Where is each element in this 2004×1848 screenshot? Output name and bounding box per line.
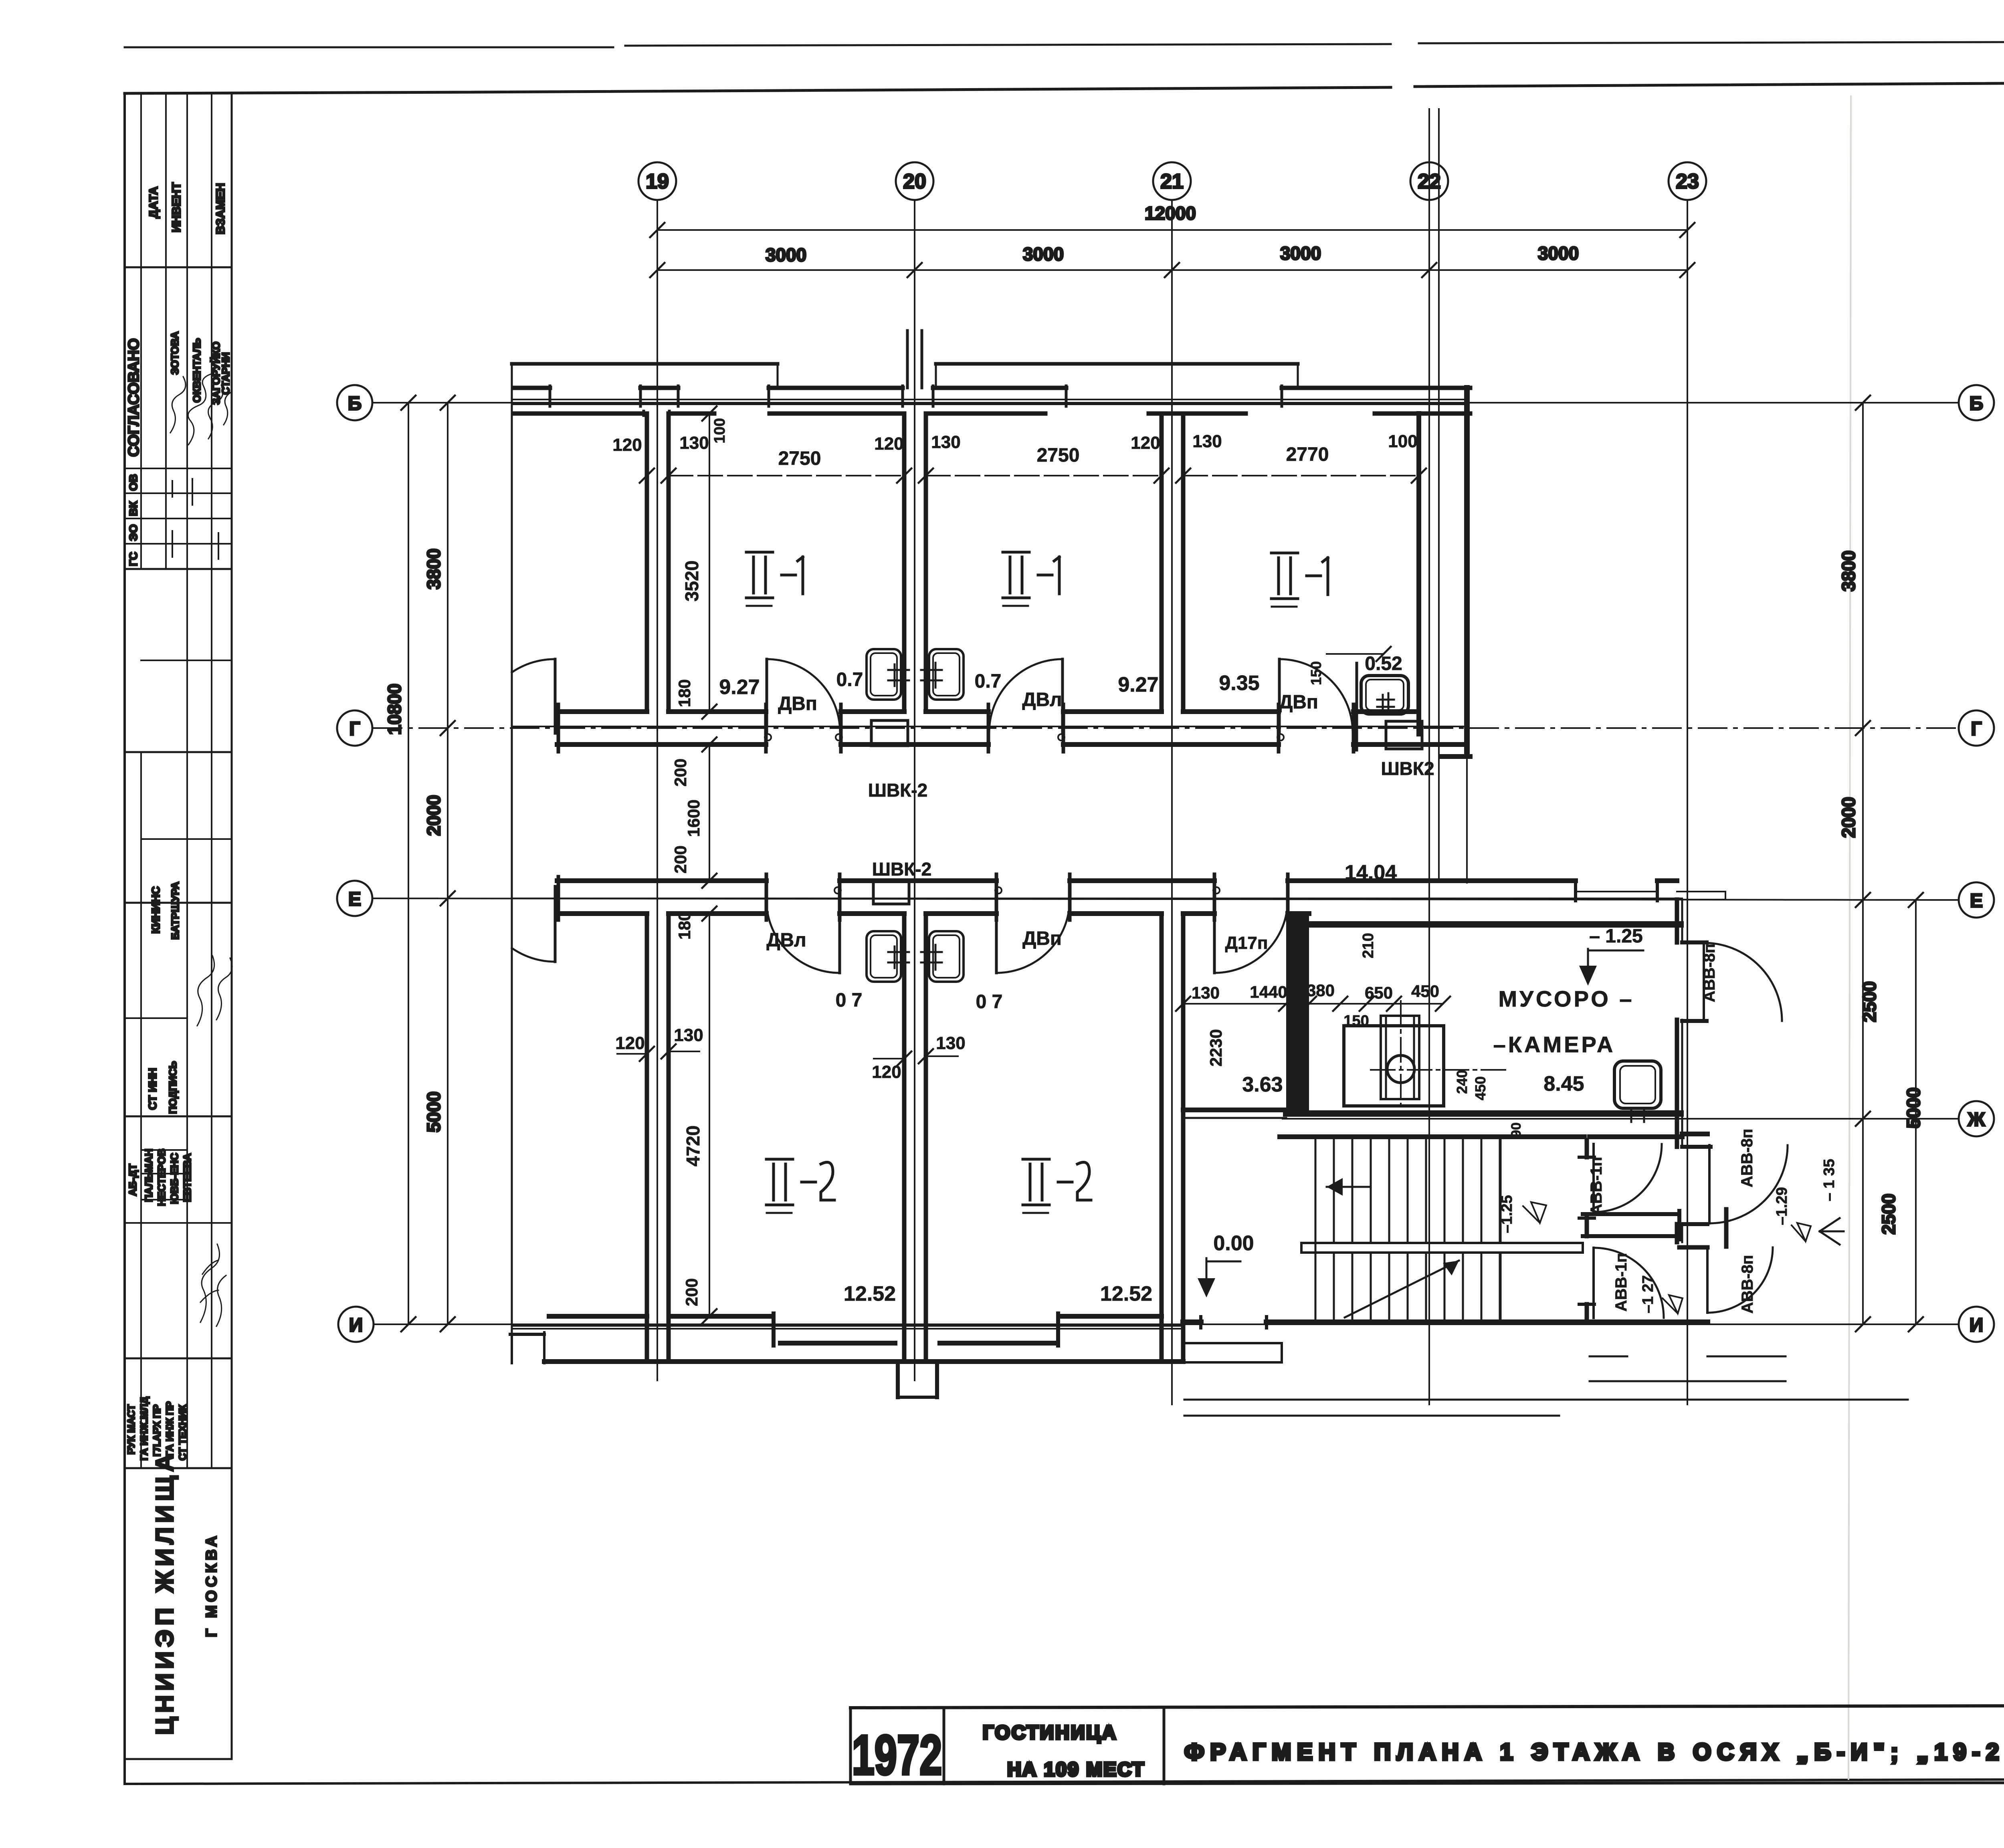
right dim line 3800 2000 2500 2500 [1838, 395, 1899, 1332]
door leaf left room bottom [554, 886, 557, 962]
fixtures and doors [512, 649, 1788, 1319]
door leaf room II-1 no1 [766, 659, 768, 732]
svg-text:8.45: 8.45 [1543, 1072, 1584, 1095]
garbage room toilet [1614, 1061, 1661, 1108]
svg-text:3000: 3000 [1538, 243, 1579, 264]
svg-text:3000: 3000 [766, 244, 806, 265]
stairwell left edge [1315, 1140, 1317, 1319]
svg-text:130: 130 [936, 1033, 965, 1053]
svg-text:СТ ТЕХНИК: СТ ТЕХНИК [177, 1404, 188, 1461]
svg-text:100: 100 [711, 418, 728, 443]
strip column lines [140, 93, 142, 1468]
svg-text:240: 240 [1454, 1070, 1470, 1094]
axis circle Ж right [1959, 1101, 1994, 1136]
WC dim 150 [1327, 653, 1384, 655]
svg-text:КИНИНС: КИНИНС [149, 886, 162, 934]
svg-text:АБ-ДТ: АБ-ДТ [127, 1164, 139, 1196]
outer trim line top [125, 40, 2004, 47]
svg-text:2770: 2770 [1286, 444, 1329, 465]
stair upper flight treads [1334, 1140, 1500, 1241]
shaft box SHVK-2 corridor south [873, 881, 909, 904]
corridor north wall room face [560, 709, 1419, 714]
axis 21 line [1171, 200, 1173, 1404]
svg-text:130: 130 [674, 1025, 703, 1045]
south wall left end block [510, 1333, 544, 1336]
corridor north wall corridor face [557, 742, 1465, 747]
svg-text:200: 200 [682, 1278, 701, 1306]
door leaf room II-2 no1 [838, 900, 841, 973]
svg-text:0 7: 0 7 [976, 991, 1003, 1013]
hotel box line [1163, 1708, 1166, 1784]
axis 20 line [914, 200, 915, 1380]
svg-text:АВВ-1п: АВВ-1п [1612, 1253, 1630, 1311]
right dim line 5000 [1903, 893, 1924, 1332]
bottom dim ticks axis19 [640, 1044, 676, 1061]
svg-text:Е: Е [1970, 890, 1983, 912]
svg-text:23: 23 [1676, 170, 1699, 193]
shaft box SHVK2 right [1386, 721, 1422, 749]
balcony end ticks north [512, 364, 1298, 389]
svg-text:12000: 12000 [1145, 203, 1196, 224]
svg-text:ЕВТЕЕВА: ЕВТЕЕВА [181, 1153, 193, 1202]
axis circle 21 [1153, 162, 1191, 200]
svg-text:200: 200 [671, 845, 690, 874]
garbage chute box [1344, 1026, 1444, 1106]
room label II-1 no1 [746, 552, 803, 606]
axis circle Г left [337, 710, 372, 746]
svg-text:–1.25: –1.25 [1499, 1195, 1515, 1233]
svg-text:И: И [1970, 1315, 1984, 1336]
strip row lines [125, 266, 232, 268]
corridor south hinge rings [834, 887, 841, 894]
stamp signature squiggles [170, 377, 186, 433]
svg-text:1600: 1600 [684, 799, 703, 837]
svg-text:БАТРШУРА: БАТРШУРА [169, 882, 181, 940]
svg-text:9.35: 9.35 [1219, 672, 1259, 695]
fold crease [1848, 96, 1851, 1779]
svg-text:ЮВБ-ЕНС: ЮВБ-ЕНС [168, 1153, 180, 1204]
svg-text:ГА ИНЖ.МЛД: ГА ИНЖ.МЛД [139, 1396, 150, 1461]
svg-text:380: 380 [1307, 981, 1335, 1000]
right porch door stubs [1682, 942, 1711, 1224]
stamp dashes [172, 479, 218, 559]
svg-text:20: 20 [903, 170, 926, 193]
svg-text:Б: Б [1970, 393, 1984, 414]
WC toilet [1361, 676, 1408, 714]
door leaf vestibule bottom [1592, 1248, 1595, 1318]
svg-text:180: 180 [675, 912, 694, 940]
svg-text:ВК: ВК [127, 501, 139, 516]
south wall inner face [549, 1314, 1162, 1319]
axis circle И right [1959, 1307, 1994, 1342]
sheet cut edge left [511, 364, 513, 1363]
svg-text:Г МОСКВА: Г МОСКВА [203, 1533, 220, 1637]
svg-text:3800: 3800 [1838, 551, 1859, 591]
title block [850, 1705, 2004, 1792]
svg-text:–КАМЕРА: –КАМЕРА [1493, 1032, 1616, 1057]
svg-text:2500: 2500 [1878, 1194, 1899, 1235]
level mark 0.00 arrow [1206, 1258, 1208, 1294]
door arc porch mid outside [1709, 1145, 1788, 1223]
sink top right [921, 649, 964, 700]
partition wall axis20 bottom band [904, 914, 926, 1362]
axis Б line [374, 402, 1958, 403]
svg-text:АВВ-8п: АВВ-8п [1701, 944, 1718, 1002]
door arc porch bottom outside [1707, 1247, 1773, 1313]
axis circle Г right [1959, 710, 1994, 746]
svg-text:ПОДПИСЬ: ПОДПИСЬ [167, 1061, 179, 1114]
stair zone top wall [1280, 1134, 1707, 1137]
door arc room II-1 no2 [989, 659, 1063, 732]
level mark -1.25 arrow garbage [1587, 949, 1589, 983]
svg-text:2500: 2500 [1859, 981, 1880, 1022]
door arc room 3.63 [1214, 900, 1288, 973]
dim slashes top rooms [640, 468, 1426, 483]
entrance door jambs [1201, 1317, 1267, 1328]
svg-text:120: 120 [872, 1062, 901, 1082]
bottom dim ticks axis20 [897, 1049, 933, 1066]
door leaf room II-2 no2 [995, 900, 998, 973]
south wall step jambs [774, 1313, 1058, 1346]
svg-text:ШВК-2: ШВК-2 [872, 859, 931, 880]
door arc garbage outside [1704, 943, 1782, 1021]
vestibule mid walls [1583, 1214, 1679, 1236]
svg-text:ДВл: ДВл [766, 930, 806, 951]
svg-text:120: 120 [1131, 433, 1160, 453]
partition wall axis19 top band [647, 414, 669, 712]
top dim line 3000s [650, 243, 1695, 277]
door arc room II-1 no3 [1279, 659, 1353, 732]
room3 right wall [1416, 414, 1421, 734]
room label II-2 no1 [766, 1159, 834, 1213]
svg-text:НА 109 МЕСТ: НА 109 МЕСТ [1007, 1759, 1145, 1780]
svg-text:ДВп: ДВп [778, 693, 817, 714]
svg-text:СОГЛАСОВАНО: СОГЛАСОВАНО [125, 338, 142, 457]
vestibule door jambs [1579, 1157, 1594, 1304]
svg-text:12.52: 12.52 [1100, 1282, 1152, 1305]
svg-text:ОВ: ОВ [127, 474, 139, 491]
svg-text:100: 100 [1388, 432, 1417, 451]
room label II-1 no2 [1003, 552, 1059, 606]
svg-text:АВВ-8п: АВВ-8п [1739, 1255, 1756, 1313]
top dim line 12000 [650, 203, 1695, 237]
svg-text:2230: 2230 [1206, 1029, 1225, 1066]
door leaf room II-1 no2 [1061, 659, 1064, 732]
svg-text:ЗОТОВА: ЗОТОВА [169, 331, 181, 375]
door leaf porch mid outside [1708, 1145, 1711, 1223]
svg-text:ИНВЕНТ: ИНВЕНТ [170, 182, 183, 232]
room dim line 2750 no2 [926, 475, 1162, 476]
svg-text:21: 21 [1160, 170, 1184, 193]
svg-text:3520: 3520 [681, 561, 702, 601]
svg-text:ФРАГМЕНТ ПЛАНА 1 ЭТАЖА В ОСЯХ: ФРАГМЕНТ ПЛАНА 1 ЭТАЖА В ОСЯХ „Б-И"; „19… [1184, 1739, 2004, 1765]
vestibule wall vertical [1585, 1140, 1589, 1321]
south wall outer face [544, 1359, 1183, 1364]
left dim line 3800 2000 5000 [423, 395, 455, 1332]
duct wall at axis22 [1438, 388, 1440, 882]
svg-text:– 1 35: – 1 35 [1821, 1159, 1838, 1201]
corridor south door jambs [558, 874, 1288, 920]
svg-text:ЭО: ЭО [127, 524, 139, 541]
expansion joint lines above plan [1429, 109, 1439, 388]
partition wall axis21 top band [1162, 414, 1183, 712]
stair lower flight treads [1334, 1254, 1500, 1319]
svg-text:Б: Б [348, 393, 362, 414]
title block bottom edge [850, 1782, 2004, 1784]
partition wall axis19 bottom band [647, 914, 669, 1362]
garbage chute pipe [1381, 1016, 1419, 1099]
svg-text:120: 120 [612, 435, 642, 455]
svg-text:0 7: 0 7 [836, 990, 863, 1011]
svg-text:СТ ИНН: СТ ИНН [146, 1068, 159, 1110]
svg-text:– 1.25: – 1.25 [1589, 926, 1642, 947]
axis Е line [374, 898, 1958, 900]
axis circle Б left [337, 385, 372, 420]
svg-text:И: И [349, 1315, 363, 1336]
svg-text:14.04: 14.04 [1345, 861, 1397, 884]
corridor north door jambs [558, 704, 1354, 752]
ground line right [1184, 1399, 1908, 1401]
corridor north wall threshold line [512, 726, 1465, 727]
right porch step lines [1590, 1356, 1786, 1381]
south balcony divider axis20 [898, 1362, 937, 1397]
room label II-2 no2 [1023, 1159, 1091, 1213]
svg-text:ЦНИИЭП ЖИЛИЩА: ЦНИИЭП ЖИЛИЩА [151, 1450, 179, 1735]
garbage room separator wall solid [1286, 916, 1309, 1112]
sink top left [867, 649, 909, 700]
corridor south wall threshold line [512, 898, 1682, 899]
main right wall upper [1464, 388, 1470, 755]
svg-text:210: 210 [1360, 933, 1377, 958]
svg-text:Д17п: Д17п [1225, 933, 1268, 953]
plan walls [510, 109, 1908, 1416]
porch pier wall right [1724, 1209, 1729, 1247]
right building wall [1675, 900, 1679, 1242]
axis Ж line [1283, 1118, 1958, 1120]
svg-text:ДВл: ДВл [1022, 689, 1062, 710]
north wall window jamb hooks [550, 386, 1282, 416]
svg-text:9.27: 9.27 [1118, 673, 1158, 696]
axis grid [337, 162, 1994, 1404]
svg-text:450: 450 [1472, 1076, 1489, 1100]
axis Г line [374, 727, 1958, 729]
stair central rail [1301, 1243, 1583, 1253]
svg-text:5000: 5000 [423, 1091, 444, 1132]
stair direction diagonal [1345, 1261, 1459, 1317]
north wall outer face [514, 386, 1470, 390]
svg-text:АВВ-1п: АВВ-1п [1588, 1157, 1605, 1215]
svg-text:130: 130 [931, 432, 960, 452]
svg-text:МУСОРО –: МУСОРО – [1499, 986, 1634, 1011]
svg-text:ДВп: ДВп [1022, 928, 1062, 949]
door arc vestibule mid [1594, 1144, 1662, 1212]
south wall recessed face [780, 1341, 1057, 1346]
garbage room dim line [1183, 1003, 1443, 1005]
axis 23 line [1687, 200, 1688, 1404]
door arc left room top [512, 659, 555, 672]
north wall inner face [514, 412, 1470, 416]
svg-text:450: 450 [1411, 982, 1439, 1001]
door leaf room II-1 no3 [1278, 659, 1281, 732]
partition wall axis21 bottom band [1162, 914, 1183, 1362]
shaft box SHVK-2 corridor north [871, 720, 908, 746]
svg-text:2000: 2000 [423, 795, 444, 836]
vertical dim slashes [702, 406, 717, 1323]
svg-text:ДВп: ДВп [1279, 692, 1318, 713]
inner border bottom [125, 1779, 2004, 1784]
room 3.63 south wall [1183, 1108, 1286, 1112]
strip outer box [125, 93, 232, 1759]
svg-text:120: 120 [615, 1033, 644, 1053]
svg-text:ВЗАМЕН: ВЗАМЕН [214, 183, 227, 234]
axis circle 19 [638, 162, 676, 200]
vertical dim line rooms top [709, 414, 710, 1316]
door leaf porch bottom outside [1706, 1247, 1709, 1313]
stair block south wall [1183, 1319, 1707, 1325]
svg-text:ШВК2: ШВК2 [1381, 758, 1434, 779]
axis circle Е left [337, 881, 372, 916]
corridor south wall corridor face [557, 878, 1677, 883]
svg-text:РУК МАСТ: РУК МАСТ [126, 1404, 137, 1455]
axis circle 22 [1410, 162, 1448, 200]
svg-text:5000: 5000 [1903, 1087, 1924, 1128]
south wall window glazing [512, 1326, 1183, 1329]
balcony slab edge north [512, 362, 1298, 366]
svg-text:150: 150 [1343, 1013, 1369, 1029]
svg-text:Е: Е [348, 889, 361, 910]
svg-text:0.7: 0.7 [975, 671, 1002, 692]
svg-text:ГОСТИНИЦА: ГОСТИНИЦА [983, 1722, 1117, 1743]
garbage chute centerlines [1371, 1069, 1508, 1071]
room label II-1 no3 [1271, 553, 1328, 607]
svg-text:ПАЛЬМАН: ПАЛЬМАН [143, 1149, 155, 1202]
svg-text:3000: 3000 [1280, 243, 1321, 264]
window in E wall right portion [1576, 892, 1657, 900]
inner border left [123, 93, 126, 1784]
door leaf room 3.63 [1213, 900, 1216, 973]
svg-text:650: 650 [1365, 983, 1393, 1002]
svg-text:Ж: Ж [1967, 1109, 1985, 1130]
svg-text:2750: 2750 [1037, 445, 1080, 466]
door leaf garbage outside [1703, 943, 1705, 1021]
axis circle 23 [1669, 162, 1706, 200]
svg-text:НЕСТЕРОВ: НЕСТЕРОВ [156, 1149, 168, 1206]
svg-text:СТАРНИ: СТАРНИ [220, 352, 232, 395]
svg-text:90: 90 [1509, 1122, 1524, 1138]
stamp signature squiggles 3 [200, 1244, 226, 1326]
svg-text:130: 130 [1192, 432, 1222, 451]
axis circle Б right [1959, 385, 1994, 420]
svg-text:2000: 2000 [1838, 797, 1859, 838]
corridor north hinge rings [765, 734, 771, 740]
axis circle И left [338, 1307, 374, 1342]
svg-text:3800: 3800 [423, 549, 444, 589]
svg-text:180: 180 [675, 679, 694, 707]
svg-text:0.7: 0.7 [836, 669, 863, 690]
svg-text:130: 130 [1192, 983, 1220, 1002]
svg-text:Г: Г [1971, 718, 1982, 740]
svg-text:ДАТА: ДАТА [147, 186, 160, 218]
svg-text:12.52: 12.52 [844, 1282, 896, 1305]
partition wall axis20 top band [904, 414, 926, 712]
axis circle Е right [1959, 882, 1994, 918]
door arc vestibule bottom [1594, 1248, 1664, 1318]
sink bottom left [867, 931, 909, 982]
svg-text:2750: 2750 [778, 448, 821, 469]
svg-text:–1 27: –1 27 [1640, 1275, 1657, 1313]
corridor south wall room face [560, 911, 1309, 916]
room dim line 2770 no3 [1183, 475, 1419, 476]
WC 0.52 niche [1356, 663, 1358, 750]
svg-text:ГС: ГС [127, 552, 139, 566]
svg-text:3000: 3000 [1023, 244, 1064, 264]
door leaf left room top [554, 659, 557, 733]
stamp signature squiggles 2 [197, 956, 214, 1026]
year box [850, 1708, 944, 1784]
sink bottom right [921, 931, 964, 982]
entrance porch [1183, 1343, 1282, 1362]
plan labels [612, 406, 1844, 1323]
door arc room II-2 no2 [996, 900, 1070, 973]
door leaf vestibule mid [1592, 1144, 1595, 1212]
svg-text:–1.29: –1.29 [1774, 1187, 1790, 1225]
svg-text:1972: 1972 [852, 1723, 942, 1786]
svg-text:150: 150 [1308, 661, 1324, 685]
axis 22 line [1428, 200, 1430, 1404]
axis 19 line [657, 200, 658, 1380]
axis И line [374, 1323, 1958, 1325]
stamp strip [125, 93, 232, 1759]
svg-text:1440: 1440 [1250, 983, 1287, 1001]
door arc room II-2 no1 [766, 900, 840, 973]
svg-text:120: 120 [874, 434, 903, 454]
balcony divider axis20 [907, 331, 922, 388]
svg-text:4720: 4720 [683, 1126, 703, 1166]
canopy at right entrance [1677, 892, 1725, 900]
svg-text:АВВ-8п: АВВ-8п [1738, 1129, 1756, 1187]
stair flight right edge [1500, 1140, 1502, 1319]
inner border top [125, 80, 2004, 93]
title block top edge [850, 1705, 2004, 1708]
svg-text:10800: 10800 [384, 684, 405, 735]
svg-text:130: 130 [679, 433, 709, 453]
svg-text:9.27: 9.27 [719, 676, 760, 699]
garbage chute circle [1387, 1055, 1414, 1083]
svg-text:0.00: 0.00 [1213, 1232, 1254, 1255]
north wall window glazing [512, 399, 1467, 404]
stair up arrow [1327, 1186, 1371, 1188]
svg-text:Г: Г [349, 718, 360, 740]
svg-text:19: 19 [646, 170, 669, 193]
room dim line 2750 no1 [669, 475, 904, 476]
door arc left room bottom [512, 948, 555, 962]
svg-text:ГА ИНЖ ПР: ГА ИНЖ ПР [164, 1401, 176, 1457]
svg-text:0.52: 0.52 [1365, 653, 1402, 674]
door arc room II-1 no1 [767, 659, 840, 732]
svg-text:3.63: 3.63 [1242, 1073, 1283, 1096]
svg-text:ГЛ.АРХ ПР: ГЛ.АРХ ПР [152, 1404, 163, 1457]
garbage room north wall [1309, 921, 1681, 928]
svg-text:ОКВЕНТАЛЬ: ОКВЕНТАЛЬ [191, 338, 203, 403]
svg-text:200: 200 [671, 759, 690, 787]
svg-text:ШВК-2: ШВК-2 [868, 780, 927, 801]
garbage room south wall [1286, 1110, 1681, 1117]
axis circle 20 [896, 162, 933, 200]
left dim line 10800 [384, 395, 416, 1332]
